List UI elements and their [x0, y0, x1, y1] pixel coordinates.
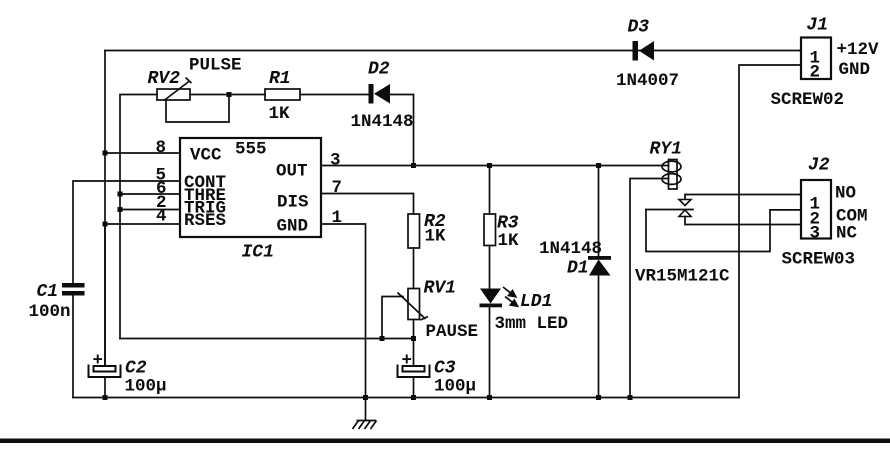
svg-text:VCC: VCC: [190, 146, 222, 166]
svg-text:1: 1: [332, 208, 343, 228]
svg-text:VR15M121C: VR15M121C: [635, 267, 730, 287]
wire C2 top lead: [104, 224, 106, 366]
wire TRIG horizontal net: [120, 338, 414, 340]
wire pin 6 THRE branch: [120, 193, 180, 195]
svg-text:SCREW02: SCREW02: [771, 90, 845, 110]
wire relay coil return: [630, 179, 669, 398]
svg-text:1N4148: 1N4148: [539, 239, 602, 259]
wire RV1 to TRIG net: [413, 320, 415, 339]
IC op U1 555 box: [180, 138, 321, 237]
svg-text:LD1: LD1: [520, 292, 552, 312]
svg-text:1K: 1K: [425, 227, 447, 247]
potentiometer RV1: [398, 289, 429, 321]
svg-text:1K: 1K: [269, 104, 291, 124]
svg-text:3mm LED: 3mm LED: [495, 314, 569, 334]
wire RV2 left branch vertical: [120, 95, 157, 339]
wire pin 8 to VCC rail: [105, 152, 180, 154]
resistor R2: [408, 214, 420, 248]
ground symbol: [353, 398, 377, 430]
connector J2 box: [801, 180, 831, 239]
svg-text:+: +: [402, 351, 413, 371]
svg-text:J2: J2: [808, 156, 830, 176]
svg-text:R1: R1: [269, 69, 291, 89]
svg-text:C1: C1: [37, 282, 59, 302]
svg-text:100µ: 100µ: [434, 377, 476, 397]
relay RY1 coil: [662, 160, 681, 190]
wire pin 7 DIS down through R2 RV1: [321, 194, 414, 215]
wire relay NO contact: [685, 195, 801, 200]
potentiometer RV2: [157, 78, 192, 101]
node junction bus/relay coil: [628, 395, 633, 400]
node junction pin6: [118, 192, 123, 197]
node junction bus/D1: [596, 395, 601, 400]
svg-text:IC1: IC1: [242, 243, 274, 263]
svg-text:4: 4: [156, 207, 167, 227]
wire R2 to RV1: [413, 248, 415, 289]
wire C2 bottom lead: [104, 377, 106, 398]
wire RV1 wiper: [382, 297, 403, 339]
node junction bus/IC gnd: [363, 395, 368, 400]
svg-text:D2: D2: [368, 60, 390, 80]
wire D2 to OUT node: [390, 95, 414, 166]
svg-text:+: +: [93, 351, 104, 371]
svg-text:3: 3: [810, 224, 821, 244]
LED LD1: [480, 287, 518, 307]
svg-text:7: 7: [332, 178, 343, 198]
node junction bus/LED: [487, 395, 492, 400]
svg-text:1N4148: 1N4148: [351, 112, 414, 132]
wire relay NC contact: [685, 217, 801, 225]
svg-text:NC: NC: [836, 224, 858, 244]
svg-text:100n: 100n: [29, 302, 71, 322]
node junction RV2/R1: [227, 92, 232, 97]
wire D1 branch top: [598, 166, 600, 257]
capacitor C2: [89, 365, 121, 378]
svg-text:D1: D1: [567, 259, 589, 279]
node junction OUT/D1: [596, 163, 601, 168]
wire R1 to D2: [300, 94, 369, 96]
svg-text:RY1: RY1: [650, 140, 682, 160]
wire left vertical VCC rail: [104, 51, 106, 367]
svg-text:D3: D3: [628, 18, 650, 38]
node junction pin4/rail: [103, 222, 108, 227]
svg-text:2: 2: [810, 63, 821, 83]
wire C3 bottom lead: [413, 377, 415, 398]
border frame bottom: [0, 439, 890, 444]
connector J1 box: [801, 38, 831, 80]
wire J1 pin2 GND down to bus: [739, 65, 801, 398]
wire pin 2 TRIG branch: [120, 209, 180, 211]
node junction D2/OUT: [411, 163, 416, 168]
svg-text:OUT: OUT: [276, 162, 308, 182]
wire R3/LED branch top: [489, 166, 491, 215]
resistor R1: [265, 89, 300, 100]
wire ground bus: [73, 397, 739, 399]
resistor R3: [484, 214, 496, 246]
wire top +12V rail: [105, 50, 801, 52]
wire R3 to LED: [489, 246, 491, 289]
node junction wiper/TRIG: [380, 336, 385, 341]
wire RV2 to R1: [190, 94, 265, 96]
svg-text:1K: 1K: [498, 231, 520, 251]
svg-text:RV1: RV1: [424, 279, 456, 299]
diode D2: [369, 84, 391, 104]
diode D3: [633, 41, 655, 61]
relay contact NO arrow: [679, 200, 691, 206]
wire pin 4 to VCC rail: [105, 223, 180, 225]
svg-text:GND: GND: [277, 217, 309, 237]
wire relay COM pivot line: [646, 209, 693, 211]
wire LED to bus: [489, 307, 491, 398]
svg-text:SCREW03: SCREW03: [782, 250, 856, 270]
node junction bus/C3: [411, 395, 416, 400]
capacitor C1: [62, 283, 85, 296]
diode D1: [588, 256, 611, 276]
svg-text:RV2: RV2: [148, 69, 181, 89]
svg-text:8: 8: [156, 138, 167, 158]
wire C3 to bus: [413, 339, 415, 367]
wire relay COM loop to J2 pin2: [646, 210, 801, 252]
svg-text:100µ: 100µ: [125, 377, 167, 397]
svg-text:NO: NO: [835, 184, 856, 204]
wire pin 5 CONT to C1: [73, 181, 180, 283]
svg-text:PAUSE: PAUSE: [426, 322, 479, 342]
wire pin 3 OUT horizontal: [321, 165, 669, 167]
wire C1 bottom to ground bus: [72, 296, 74, 398]
svg-text:C3: C3: [434, 359, 456, 379]
svg-text:DIS: DIS: [277, 193, 309, 213]
node junction bus/C2: [103, 395, 108, 400]
wire RV2 wiper loop: [166, 95, 229, 123]
capacitor C3: [398, 365, 430, 378]
svg-text:+12V: +12V: [837, 40, 880, 60]
wire pin 1 GND down: [321, 224, 366, 398]
svg-text:PULSE: PULSE: [189, 56, 242, 76]
svg-text:3: 3: [330, 151, 341, 171]
relay contact COM arrow: [679, 210, 691, 217]
svg-text:C2: C2: [125, 359, 147, 379]
svg-text:GND: GND: [839, 60, 871, 80]
svg-text:555: 555: [235, 140, 267, 160]
svg-text:RSES: RSES: [184, 211, 226, 231]
node junction TRIG/C3: [411, 336, 416, 341]
svg-text:J1: J1: [807, 16, 829, 36]
node junction pin2: [118, 207, 123, 212]
svg-text:1N4007: 1N4007: [616, 71, 679, 91]
node junction pin8/rail: [103, 151, 108, 156]
wire D1 to bus: [598, 276, 600, 398]
node junction OUT/R3: [487, 163, 492, 168]
